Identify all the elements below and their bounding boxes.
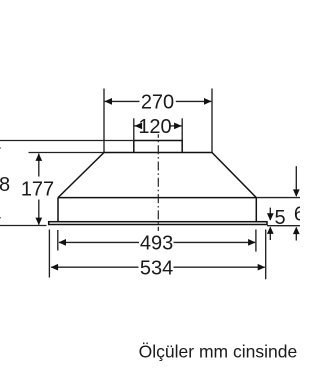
base plate outline <box>49 222 267 225</box>
arrowhead 6 up <box>293 227 300 235</box>
arrowhead 5 up <box>267 226 274 234</box>
dimension line 493 <box>59 241 139 243</box>
arrowhead 120 left <box>135 123 143 130</box>
svg-text:534: 534 <box>140 257 173 279</box>
dimension line 177 <box>38 154 40 177</box>
wire: 534 right extension line <box>265 230 267 280</box>
svg-text:6: 6 <box>294 204 300 226</box>
wire: bottom-right reference line <box>267 225 300 227</box>
arrowhead 493 left <box>59 239 67 246</box>
wire: 120 left tick above duct <box>133 118 135 140</box>
svg-text:493: 493 <box>140 232 173 254</box>
svg-text:177: 177 <box>21 178 54 200</box>
wire: duct-top extension line to cropped left dimension <box>0 140 134 142</box>
wire: 493 left extension line <box>57 230 59 251</box>
arrowhead 534 left <box>51 264 59 271</box>
centerline of duct (dash-dot) <box>157 134 159 231</box>
wire: bottom-left reference line <box>0 225 47 227</box>
arrowhead 177 top <box>35 153 42 161</box>
arrowhead 493 right <box>248 239 256 246</box>
hood left slope <box>58 153 104 198</box>
wire: 493 right extension line <box>255 230 257 252</box>
dimension line 270 <box>105 100 140 102</box>
arrowhead sliver: cropped left dim, lower <box>0 217 1 224</box>
arrowhead 534 right <box>258 264 266 271</box>
dimension line 120 <box>134 125 140 127</box>
wire: 270 right extension line <box>211 89 213 153</box>
hood body right side <box>255 198 257 222</box>
wire: hood-top extension line for 177 <box>29 152 104 154</box>
arrowhead sliver: cropped left dim, upper <box>0 141 1 148</box>
svg-text:8: 8 <box>0 174 10 196</box>
duct spigot outline <box>134 141 182 153</box>
arrowhead 6 down <box>293 189 300 197</box>
wire: 534 left extension line <box>48 230 50 278</box>
arrowhead 177 bottom <box>35 218 42 226</box>
wire: corner extension line right for dim 6 <box>256 197 300 199</box>
svg-text:270: 270 <box>141 92 174 114</box>
arrowhead 270 left <box>105 98 113 105</box>
dimension line 6 <box>295 166 297 196</box>
wire: 120 right tick above duct <box>181 118 183 140</box>
arrowhead 120 right <box>174 123 182 130</box>
dimension line 534 <box>51 266 138 268</box>
svg-text:5: 5 <box>274 207 285 229</box>
svg-text:120: 120 <box>138 116 171 138</box>
arrowhead 5 down <box>267 213 274 221</box>
dimension line 5 <box>269 208 271 220</box>
hood body left side <box>57 198 59 222</box>
arrowhead 270 right <box>204 98 212 105</box>
wire: 270 left extension line <box>103 89 105 153</box>
svg-text:Ölçüler mm cinsinde: Ölçüler mm cinsinde <box>139 342 298 362</box>
hood right slope <box>212 153 256 198</box>
hood top plateau <box>103 152 212 154</box>
hood body top edge <box>58 197 256 199</box>
